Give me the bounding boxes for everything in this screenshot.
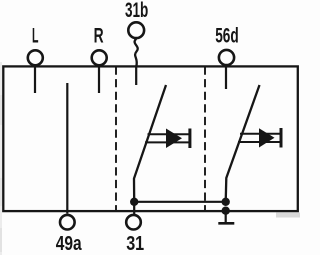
svg-text:56d: 56d [215,23,239,47]
svg-text:L: L [32,23,39,47]
svg-text:49a: 49a [56,232,82,255]
svg-text:31: 31 [126,232,144,255]
svg-text:31b: 31b [125,0,148,22]
svg-text:R: R [94,24,104,48]
